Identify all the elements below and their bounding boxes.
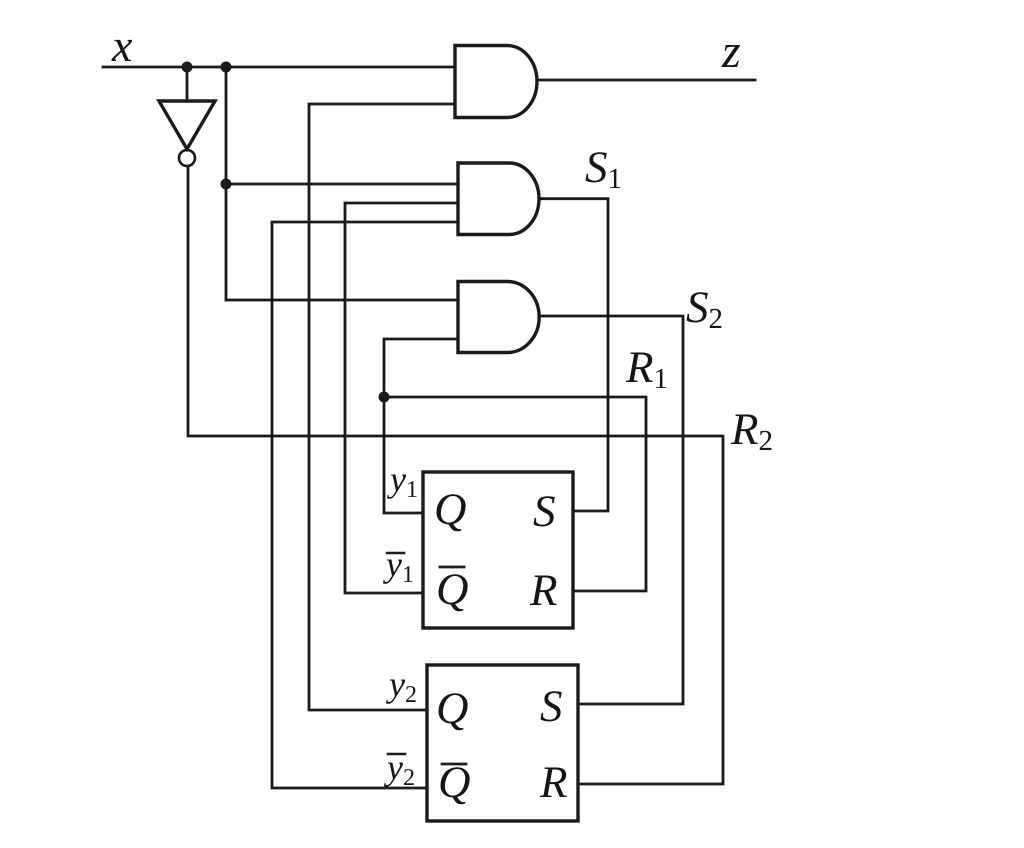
svg-text:Q: Q — [434, 484, 467, 534]
overbar of FF1 Qbar — [440, 566, 464, 569]
wire S2 net: AND gate3 output to FF2 S — [539, 316, 683, 704]
wire ybar2 net: FF2 Qbar up to AND gate2 bottom input — [272, 222, 458, 788]
AND gate G1 (z) — [455, 46, 537, 118]
wire S1 net: AND gate2 output to FF1 S — [539, 199, 608, 511]
svg-text:S: S — [540, 681, 563, 731]
node junction on x wire (inverter tap) — [182, 62, 193, 73]
svg-text:Q: Q — [436, 683, 469, 733]
svg-text:R2: R2 — [730, 404, 773, 457]
wire x to AND gate 2 top input — [226, 183, 458, 186]
wire x to AND gate 3 top input — [226, 299, 458, 302]
svg-text:y2: y2 — [386, 664, 417, 708]
svg-text:z: z — [721, 25, 741, 78]
inverter bubble — [179, 150, 195, 166]
svg-text:R1: R1 — [625, 342, 668, 395]
AND gate G3 (S2) — [458, 282, 539, 353]
svg-text:S1: S1 — [585, 142, 622, 195]
svg-text:S: S — [533, 486, 556, 536]
wire inverter input — [186, 67, 189, 101]
svg-text:x: x — [111, 20, 133, 71]
svg-text:R: R — [539, 757, 568, 807]
inverter (NOT gate) triangle — [159, 101, 215, 149]
node junction x-branch to gate2 — [221, 179, 232, 190]
wire y1 net: FF1 Q up to AND gate3 bottom input — [384, 339, 458, 513]
node junction on x wire (branch tap) — [221, 62, 232, 73]
wire R1 net: junction across and down to FF1 R — [384, 397, 646, 591]
svg-text:Q: Q — [436, 564, 469, 614]
flip-flop FF2 box — [427, 665, 578, 821]
svg-text:y1: y1 — [387, 459, 418, 503]
wire x input — [103, 66, 455, 69]
flip-flop FF1 box — [423, 472, 573, 628]
svg-text:y1: y1 — [383, 544, 414, 588]
overbar of ybar1 — [387, 552, 404, 555]
node junction y1/R1 — [379, 392, 390, 403]
wire ybar1 net: FF1 Qbar up to AND gate2 middle input — [345, 203, 458, 593]
overbar of ybar2 — [388, 753, 405, 756]
svg-text:S2: S2 — [686, 282, 723, 335]
wire x branch vertical — [225, 67, 228, 300]
wire y2 net: FF2 Q up to AND gate1 bottom input — [309, 104, 455, 710]
wire R2 net: inverter output down, across, down to FF2 R — [188, 166, 723, 784]
AND gate G2 (S1) — [458, 163, 539, 235]
overbar of FF2 Qbar — [442, 763, 466, 766]
wire z output — [537, 79, 755, 82]
svg-text:R: R — [529, 565, 558, 615]
